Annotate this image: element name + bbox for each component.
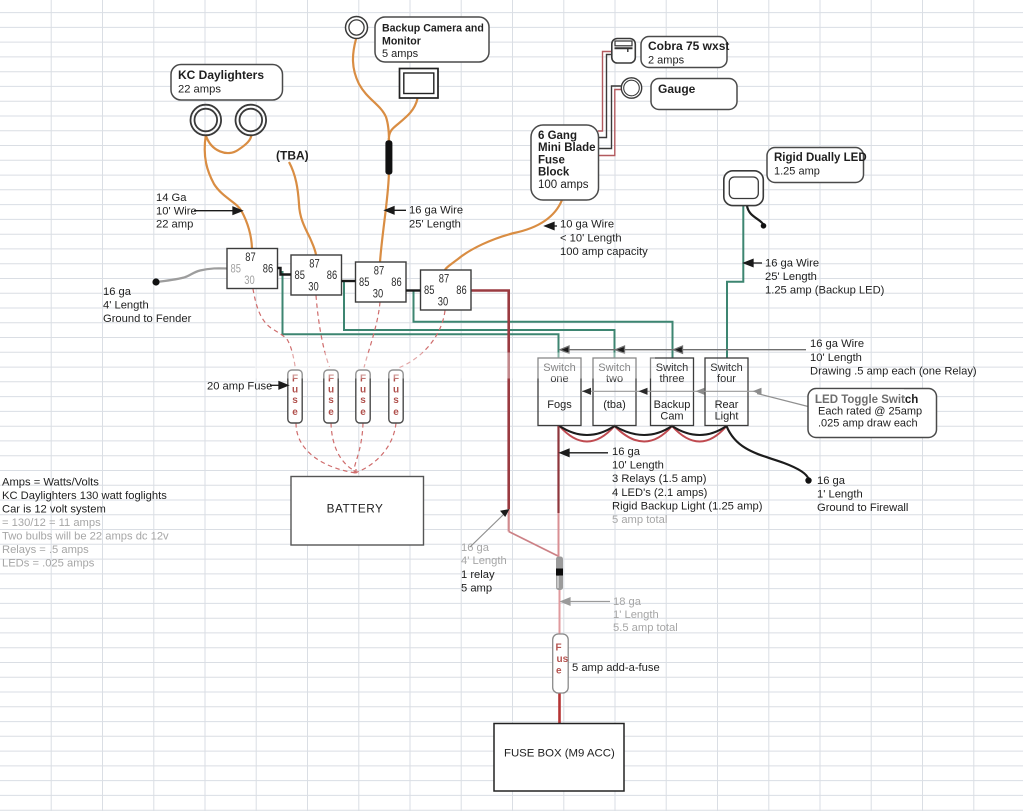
svg-text:e: e [393, 407, 399, 418]
svg-text:20 amp Fuse: 20 amp Fuse [207, 381, 272, 393]
svg-text:.025 amp draw each: .025 amp draw each [818, 418, 918, 430]
wire KC lamp2 U-loop (orange) [206, 135, 252, 154]
svg-text:u: u [328, 385, 334, 396]
label box: Rigid Dually LED [767, 148, 867, 183]
svg-text:16 ga: 16 ga [461, 542, 490, 554]
svg-text:86: 86 [391, 275, 402, 289]
svg-text:86: 86 [263, 262, 274, 276]
svg-text:87: 87 [245, 250, 256, 264]
arrow to KC wire [194, 207, 242, 214]
arrow to fuse 1 [270, 382, 288, 389]
wire scallops under switches (red) [560, 426, 727, 442]
svg-text:30: 30 [308, 280, 319, 294]
wire Rigid LED pigtail (black) with dot [747, 206, 764, 226]
dashed wire relay R3 30 to fuse 3 [364, 302, 380, 368]
svg-text:Cam: Cam [660, 411, 683, 423]
arrow pointer to red junction [470, 509, 510, 547]
dashed wire relay R4 30 to fuse 4 [400, 311, 446, 368]
relay K1 [227, 249, 278, 289]
svg-text:s: s [292, 395, 298, 406]
svg-text:16 ga Wire: 16 ga Wire [810, 338, 864, 350]
svg-text:87: 87 [309, 257, 320, 271]
svg-text:16 ga Wire: 16 ga Wire [409, 205, 463, 217]
svg-text:e: e [292, 407, 298, 418]
wire pair fuse block to Cobra CB (black) [598, 55, 612, 138]
wire pair fuse block to Gauge (red) [598, 90, 622, 156]
svg-text:2 amps: 2 amps [648, 55, 685, 67]
wire add-a-fuse to fuse box (red) [558, 693, 561, 724]
fuse F1 (20 amp) [288, 370, 302, 423]
svg-text:1 relay: 1 relay [461, 569, 495, 581]
note ground to fender [103, 286, 192, 325]
svg-text:three: three [659, 373, 684, 385]
splice tube (gray with black band) [556, 557, 563, 591]
svg-text:10' Length: 10' Length [612, 460, 664, 472]
svg-text:4' Length: 4' Length [103, 300, 149, 312]
svg-text:86: 86 [456, 283, 467, 297]
wire pair fuse block to Cobra CB (red) [598, 52, 612, 132]
note 18 ga add-a-fuse [613, 596, 678, 634]
wire switch feed line (gray) with arrows [560, 346, 806, 353]
svg-text:4' Length: 4' Length [461, 555, 507, 567]
wire switch four to firewall ground (black) with dot [727, 426, 809, 479]
note 16 ga wire 25 length (camera) [409, 205, 463, 231]
wire camera/monitor to relay R3 (orange 16ga) [380, 138, 389, 262]
svg-text:KC Daylighters: KC Daylighters [178, 68, 264, 82]
svg-text:Ground to Fender: Ground to Fender [103, 313, 192, 325]
svg-text:e: e [328, 407, 334, 418]
svg-text:(tba): (tba) [603, 399, 626, 411]
svg-text:Rigid Backup Light (1.25 amp): Rigid Backup Light (1.25 amp) [612, 500, 763, 512]
svg-text:Mini Blade: Mini Blade [538, 142, 596, 154]
svg-text:(TBA): (TBA) [276, 149, 309, 163]
svg-text:s: s [328, 395, 334, 406]
note 20 amp fuse [207, 381, 272, 393]
note 16 ga switch feed [810, 338, 977, 378]
dashed wire relay R1 30 to fuse 1 [253, 289, 296, 370]
wire LED toggle box pointer (gray diagonal) [757, 394, 814, 409]
switch S1 (Fogs) [538, 358, 581, 426]
svg-text:F: F [556, 643, 562, 654]
arrow to 18ga wire (gray) [561, 598, 610, 605]
wire scallops under switches (black) [560, 426, 727, 435]
svg-text:Backup Camera and: Backup Camera and [382, 23, 484, 35]
svg-text:16 ga: 16 ga [817, 475, 846, 487]
svg-text:18 ga: 18 ga [613, 596, 642, 608]
dashed wire fuse 1 to battery [296, 423, 359, 474]
svg-text:25' Length: 25' Length [765, 271, 817, 283]
svg-text:four: four [717, 373, 736, 385]
dashed wire fuse 3 to battery [354, 423, 363, 473]
wire monitor lead (orange) [389, 99, 418, 138]
splice tube on camera wire (black heat shrink) [385, 140, 392, 174]
svg-text:10' Wire: 10' Wire [156, 206, 197, 218]
wire backup camera lead (orange) [353, 39, 389, 141]
svg-text:Ground to Firewall: Ground to Firewall [817, 502, 908, 514]
svg-text:Car is 12 volt system: Car is 12 volt system [2, 504, 106, 516]
svg-text:85: 85 [359, 275, 370, 289]
KC daylighter lamp 2 (double circle) [236, 105, 267, 136]
wire link relay K2 to K3 (black) [342, 280, 356, 282]
label box: Cobra 75 wxst [641, 37, 729, 68]
svg-text:25' Length: 25' Length [409, 219, 461, 231]
label box: 6 Gang Mini Blade Fuse Block [531, 125, 599, 200]
svg-text:< 10' Length: < 10' Length [560, 233, 622, 245]
note 14 Ga wire [156, 192, 197, 231]
svg-text:= 130/12 = 11 amps: = 130/12 = 11 amps [2, 517, 101, 529]
relay K4 [421, 270, 472, 310]
svg-text:100 amps: 100 amps [538, 179, 589, 191]
svg-text:e: e [556, 666, 562, 677]
wire Rigid LED to switch four (teal 16ga) [727, 206, 743, 359]
wire relay R4 86 to junction (dark red) [471, 291, 509, 510]
svg-text:4 LED's (2.1 amps): 4 LED's (2.1 amps) [612, 487, 708, 499]
wire relay link1 to switch one (teal) [283, 271, 559, 358]
dashed wire relay R2 30 to fuse 2 [316, 296, 330, 368]
wire link relay K3 to K4 (black) [406, 289, 421, 291]
wire fuse block to relay R4 (orange 10ga) [445, 200, 562, 270]
svg-text:5 amp: 5 amp [461, 583, 492, 595]
wire splice to add-a-fuse (pink) [559, 590, 561, 634]
svg-text:us: us [557, 654, 569, 665]
svg-text:s: s [393, 395, 399, 406]
KC daylighter lamp 1 (double circle) [191, 105, 267, 136]
note 16 ga backup LED wire [765, 258, 885, 297]
svg-text:16 ga: 16 ga [103, 286, 132, 298]
svg-text:10 ga Wire: 10 ga Wire [560, 219, 614, 231]
svg-text:30: 30 [438, 295, 449, 309]
svg-text:Rear: Rear [715, 399, 739, 411]
wire KC lamps to relay R1 (orange 14Ga) [205, 135, 252, 249]
dashed wire battery feed tail [355, 469, 357, 476]
note 10 ga wire fuse block [560, 219, 648, 259]
svg-text:3 Relays (1.5 amp): 3 Relays (1.5 amp) [612, 473, 707, 485]
fuse F4 (20 amp) [389, 370, 403, 423]
svg-text:s: s [360, 395, 366, 406]
wire relay link2 to switch two (teal) [344, 281, 615, 358]
backup camera icon (double circle) [346, 17, 368, 39]
svg-text:LEDs = .025 amps: LEDs = .025 amps [2, 558, 95, 570]
svg-text:Amps = Watts/Volts: Amps = Watts/Volts [2, 477, 99, 489]
watermark band [816, 389, 904, 405]
add-a-fuse symbol [553, 634, 569, 693]
svg-text:16 ga Wire: 16 ga Wire [765, 258, 819, 270]
svg-text:Fogs: Fogs [547, 399, 572, 411]
wire (TBA) to relay R2 (orange) [289, 162, 316, 255]
note ground to firewall [817, 475, 908, 514]
svg-text:100 amp capacity: 100 amp capacity [560, 246, 648, 258]
note 5 amp add-a-fuse [572, 662, 660, 674]
svg-text:1' Length: 1' Length [817, 489, 863, 501]
wire pair fuse block to Gauge (black) [598, 86, 622, 149]
svg-text:6 Gang: 6 Gang [538, 130, 577, 142]
svg-text:5 amp add-a-fuse: 5 amp add-a-fuse [572, 662, 660, 674]
svg-text:87: 87 [374, 264, 385, 278]
svg-text:5 amp total: 5 amp total [612, 514, 667, 526]
svg-text:30: 30 [373, 287, 384, 301]
wire switches down to splice (dark red / pink) [557, 426, 559, 513]
svg-text:Light: Light [715, 411, 739, 423]
svg-text:Each rated @ 25amp: Each rated @ 25amp [818, 406, 922, 418]
svg-text:Monitor: Monitor [382, 35, 421, 47]
svg-text:14 Ga: 14 Ga [156, 192, 187, 204]
svg-text:85: 85 [231, 262, 242, 276]
svg-text:FUSE BOX (M9 ACC): FUSE BOX (M9 ACC) [504, 748, 615, 760]
fuse F2 (20 amp) [324, 370, 338, 423]
svg-text:85: 85 [424, 283, 435, 297]
label box: Backup Camera and Monitor [375, 17, 489, 62]
svg-text:85: 85 [295, 268, 306, 282]
svg-text:1.25 amp: 1.25 amp [774, 166, 820, 178]
dashed wire fuse 2 to battery [331, 423, 358, 473]
fuse F3 (20 amp) [356, 370, 370, 423]
svg-text:u: u [360, 385, 366, 396]
svg-text:5.5 amp total: 5.5 amp total [613, 622, 678, 634]
gauge icon (double circle) [621, 78, 641, 98]
switch S4 (Rear|Light) [705, 358, 748, 426]
note 16 ga 1 relay [461, 542, 507, 595]
switch S2 ((tba)) [593, 358, 636, 426]
wire link relay K1 to K2 (black) [278, 268, 292, 275]
svg-text:Gauge: Gauge [658, 82, 696, 96]
svg-text:1' Length: 1' Length [613, 609, 659, 621]
label box: Gauge [651, 79, 737, 110]
label box: LED Toggle Switch [808, 389, 937, 438]
svg-text:1.25 amp (Backup LED): 1.25 amp (Backup LED) [765, 285, 885, 297]
wire diagonal junction to splice (red) [509, 532, 559, 557]
dashed wire fuse 4 to battery [352, 423, 396, 474]
svg-text:BATTERY: BATTERY [327, 502, 384, 516]
fuse box (M9 ACC) [494, 724, 624, 792]
svg-text:u: u [292, 385, 298, 396]
battery box [291, 477, 424, 546]
svg-text:16 ga: 16 ga [612, 446, 641, 458]
switch S3 (Backup|Cam) [651, 358, 694, 426]
svg-text:e: e [360, 407, 366, 418]
svg-text:Rigid Dually LED: Rigid Dually LED [774, 152, 867, 164]
wire switch interconnect (gray) with arrows [581, 388, 762, 395]
svg-text:Fuse: Fuse [538, 154, 565, 166]
svg-text:Cobra 75 wxst: Cobra 75 wxst [648, 39, 729, 53]
svg-text:Two bulbs will be 22 amps dc 1: Two bulbs will be 22 amps dc 12v [2, 531, 169, 543]
ground wire to fender (gray) with terminal dot [156, 268, 227, 282]
svg-text:Drawing .5 amp each (one Relay: Drawing .5 amp each (one Relay) [810, 366, 977, 378]
svg-text:Backup: Backup [654, 399, 691, 411]
svg-text:Block: Block [538, 167, 570, 179]
svg-text:22 amps: 22 amps [178, 84, 221, 96]
relay K2 [291, 255, 342, 295]
arrow to LED wire [744, 259, 762, 266]
note (TBA) [276, 149, 309, 163]
svg-text:5 amps: 5 amps [382, 48, 419, 60]
note switch harness [612, 446, 763, 526]
arrow to switch harness wire [560, 449, 608, 456]
note calc block [2, 477, 169, 570]
svg-text:30: 30 [244, 273, 255, 287]
svg-text:86: 86 [327, 268, 338, 282]
svg-text:KC Daylighters 130 watt foglig: KC Daylighters 130 watt foglights [2, 490, 167, 502]
svg-text:87: 87 [439, 272, 450, 286]
svg-text:22 amp: 22 amp [156, 219, 193, 231]
arrow to 10ga wire [545, 222, 557, 229]
Rigid Dually LED lamp icon (rounded squares) [724, 171, 764, 206]
Cobra CB radio icon [612, 39, 636, 64]
label box: KC Daylighters [171, 65, 283, 101]
arrow to camera wire [385, 207, 406, 214]
monitor icon (double rectangle) [400, 69, 439, 99]
svg-text:10' Length: 10' Length [810, 352, 862, 364]
svg-text:u: u [393, 385, 399, 396]
wire relay link3 to switch three (teal) [414, 291, 673, 359]
relay K3 [356, 262, 407, 302]
svg-text:Relays = .5 amps: Relays = .5 amps [2, 544, 89, 556]
